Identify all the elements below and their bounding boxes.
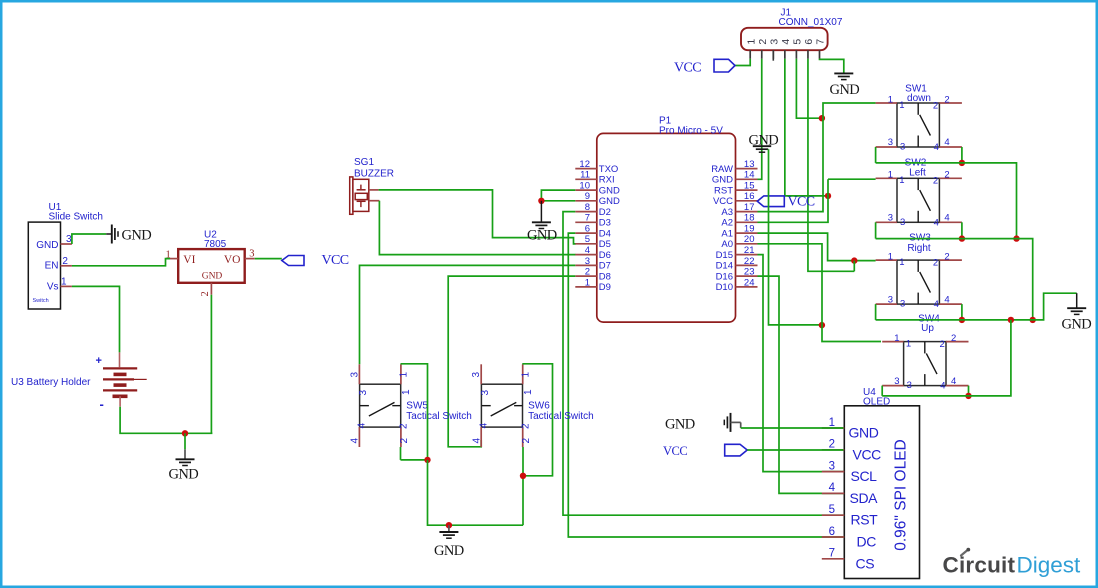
- svg-text:SW6: SW6: [528, 401, 550, 412]
- svg-text:RST: RST: [851, 512, 879, 528]
- J1 pin 4: [784, 50, 786, 59]
- VCC supply flag at P1 pin 16: [757, 196, 784, 207]
- svg-text:3: 3: [769, 39, 781, 45]
- svg-text:A0: A0: [721, 239, 733, 250]
- svg-text:3: 3: [349, 372, 360, 378]
- junction SW2 loop: [959, 235, 965, 241]
- ground symbol at P1 pins 9 10: [541, 190, 575, 201]
- wire SW3 loop to ground spur: [876, 293, 1077, 320]
- svg-text:6: 6: [803, 39, 815, 45]
- svg-text:1: 1: [899, 100, 904, 111]
- P1 pin 9 GND: [575, 200, 597, 202]
- svg-text:3: 3: [900, 217, 905, 228]
- slide switch U1: [28, 222, 60, 309]
- svg-text:D5: D5: [599, 239, 611, 250]
- J1 pin 6: [807, 50, 809, 59]
- J1 pin 1: [749, 50, 751, 59]
- P1 pin 20 A0: [736, 243, 758, 245]
- svg-text:24: 24: [744, 277, 755, 288]
- wire J1 pin7 to ground: [820, 59, 844, 73]
- U2 pin 2 GND: [210, 283, 212, 295]
- wire ground to OLED pin1: [741, 427, 844, 429]
- svg-text:20: 20: [744, 234, 755, 245]
- svg-text:2: 2: [520, 423, 531, 429]
- U1 pin 1 Vs: [61, 285, 72, 287]
- svg-text:CONN_01X07: CONN_01X07: [779, 17, 843, 28]
- svg-text:21: 21: [744, 245, 755, 256]
- svg-text:3: 3: [888, 213, 893, 224]
- svg-text:D16: D16: [716, 271, 733, 282]
- svg-text:VCC: VCC: [322, 253, 349, 268]
- svg-text:2: 2: [933, 100, 938, 111]
- U2 pin 1 VI: [170, 258, 178, 260]
- P1 pin 17 A3: [736, 211, 758, 213]
- svg-text:9: 9: [585, 191, 590, 202]
- svg-text:3: 3: [480, 390, 491, 396]
- svg-text:1: 1: [745, 39, 757, 45]
- svg-text:Right: Right: [907, 243, 931, 254]
- svg-text:19: 19: [744, 224, 755, 235]
- svg-text:23: 23: [744, 267, 755, 278]
- svg-text:2: 2: [200, 291, 211, 296]
- svg-text:4: 4: [471, 438, 482, 444]
- svg-text:BUZZER: BUZZER: [354, 169, 394, 180]
- U4 pin 5 RST: [822, 514, 845, 516]
- svg-text:14: 14: [744, 170, 755, 181]
- svg-text:7: 7: [585, 213, 590, 224]
- wire ground tap to SW4 net: [769, 149, 821, 325]
- wire SW2 pins 3 4 loop to ground rail: [875, 222, 877, 238]
- voltage regulator U2 7805: [178, 249, 245, 283]
- svg-text:Vs: Vs: [47, 282, 59, 293]
- svg-text:4: 4: [829, 482, 836, 494]
- J1 pin 5: [795, 50, 797, 59]
- svg-text:RAW: RAW: [711, 164, 733, 175]
- svg-text:Pro Micro - 5V: Pro Micro - 5V: [659, 126, 723, 137]
- svg-text:D10: D10: [716, 282, 733, 293]
- svg-text:VCC: VCC: [674, 60, 701, 75]
- svg-text:7: 7: [815, 39, 827, 45]
- svg-text:CS: CS: [856, 555, 875, 571]
- connector J1 CONN_01X07: [741, 28, 828, 50]
- U4 pin 1 GND: [822, 427, 845, 429]
- junction rail at SW3 level: [1030, 317, 1036, 323]
- buzzer pin - stub: [369, 200, 380, 202]
- svg-text:D9: D9: [599, 282, 611, 293]
- P1 pin 19 A1: [736, 232, 758, 234]
- svg-text:13: 13: [744, 159, 755, 170]
- svg-text:GND: GND: [527, 227, 557, 243]
- svg-text:2: 2: [944, 94, 949, 105]
- U4 pin 3 SCL: [822, 471, 845, 473]
- svg-text:TXO: TXO: [599, 164, 619, 175]
- U4 pin 4 SDA: [822, 492, 845, 494]
- svg-text:4: 4: [944, 213, 949, 224]
- wire P1 D7 to SW5 pin3: [360, 265, 576, 364]
- junction node A: [819, 115, 825, 121]
- wire SW2 loop to rail: [876, 239, 1033, 320]
- svg-text:Tactical Switch: Tactical Switch: [528, 411, 594, 422]
- svg-text:GND: GND: [830, 82, 860, 98]
- svg-text:22: 22: [744, 256, 755, 267]
- svg-text:3: 3: [249, 249, 254, 260]
- wire P1 A1 to SW3 pin1: [758, 233, 876, 261]
- P1 pin 12 TXO: [575, 168, 597, 170]
- wire J1 pin6 down to row net: [808, 59, 854, 271]
- svg-text:3: 3: [894, 376, 899, 387]
- P1 pin 16 VCC: [736, 200, 758, 202]
- svg-text:15: 15: [744, 181, 755, 192]
- svg-text:SDA: SDA: [850, 490, 879, 506]
- U1 pin 3 GND: [61, 243, 72, 245]
- U4 pin 7 CS: [822, 558, 845, 560]
- svg-text:3: 3: [829, 460, 835, 472]
- tactile switch SW6: [481, 384, 522, 427]
- svg-text:1: 1: [888, 251, 893, 262]
- junction SW4 net: [819, 322, 825, 328]
- P1 pin 22 D14: [736, 264, 758, 266]
- junction SW1 loop: [959, 160, 965, 166]
- svg-text:1: 1: [906, 338, 911, 349]
- svg-text:A3: A3: [721, 207, 733, 218]
- svg-text:4: 4: [934, 217, 939, 228]
- wire P1 D16 to OLED SDA: [758, 276, 845, 493]
- svg-text:3: 3: [585, 256, 590, 267]
- svg-text:4: 4: [479, 423, 490, 429]
- wire SW1 loop to rail: [876, 163, 1017, 239]
- svg-text:3: 3: [888, 137, 893, 148]
- svg-text:1: 1: [829, 417, 835, 429]
- svg-text:4: 4: [357, 423, 368, 429]
- svg-text:A2: A2: [721, 218, 733, 229]
- svg-text:1: 1: [894, 333, 899, 344]
- svg-text:RST: RST: [714, 185, 733, 196]
- wire J1 pin4 to VCC net: [785, 59, 828, 196]
- wire P1 D4 to OLED DC: [568, 233, 844, 537]
- svg-text:4: 4: [934, 299, 939, 310]
- buzzer pin + stub: [369, 189, 379, 191]
- svg-text:VCC: VCC: [788, 195, 815, 210]
- svg-text:4: 4: [944, 137, 949, 148]
- svg-text:18: 18: [744, 213, 755, 224]
- junction bottom ground: [446, 522, 452, 528]
- wire SW6 pin2 down: [522, 447, 524, 525]
- svg-text:SG1: SG1: [354, 157, 374, 168]
- svg-text:D6: D6: [599, 250, 611, 261]
- junction SW5 loop: [424, 457, 430, 463]
- svg-text:2: 2: [944, 170, 949, 181]
- svg-text:GND: GND: [122, 227, 152, 243]
- ground symbol at J1 pin 7: [834, 72, 853, 74]
- P1 pin 23 D16: [736, 275, 758, 277]
- svg-text:-: -: [100, 397, 104, 412]
- svg-text:Left: Left: [909, 167, 926, 178]
- wire node A to P1 A3: [758, 103, 876, 212]
- P1 pin 2 D8: [575, 275, 597, 277]
- U2 pin 3 VO: [245, 258, 255, 260]
- svg-text:2: 2: [933, 176, 938, 187]
- svg-text:6: 6: [829, 526, 835, 538]
- svg-text:3: 3: [471, 372, 482, 378]
- svg-text:5: 5: [792, 39, 804, 45]
- U1 pin 2 EN: [61, 265, 72, 267]
- svg-text:3: 3: [907, 380, 912, 391]
- svg-text:GND: GND: [202, 272, 223, 282]
- VCC supply flag at J1 pin 1: [714, 59, 735, 72]
- wire VCC junction to SW2 pin1: [828, 178, 876, 180]
- wire P1 D2 to OLED RST: [563, 212, 844, 516]
- svg-text:VCC: VCC: [713, 196, 733, 207]
- svg-text:VCC: VCC: [853, 446, 882, 462]
- svg-text:5: 5: [585, 234, 590, 245]
- svg-text:2: 2: [944, 251, 949, 262]
- wire P1 D15 to OLED SCL: [758, 255, 845, 472]
- svg-text:D2: D2: [599, 207, 611, 218]
- svg-text:Digest: Digest: [1017, 553, 1082, 578]
- svg-text:+: +: [96, 355, 102, 367]
- svg-text:GND: GND: [599, 196, 620, 207]
- svg-text:RXI: RXI: [599, 175, 615, 186]
- svg-text:GND: GND: [1062, 317, 1092, 333]
- svg-text:1: 1: [899, 175, 904, 186]
- wire P1 A0 to row net: [758, 244, 823, 271]
- svg-text:D15: D15: [716, 250, 733, 261]
- svg-text:17: 17: [744, 202, 755, 213]
- svg-text:A1: A1: [721, 228, 733, 239]
- svg-text:VCC: VCC: [663, 444, 687, 458]
- wire branch down to row net: [853, 261, 855, 272]
- wire SW6 pins 1 2 loop: [522, 364, 552, 476]
- P1 pin 11 RXI: [575, 178, 597, 180]
- svg-text:GND: GND: [665, 416, 695, 432]
- svg-text:4: 4: [940, 381, 945, 392]
- svg-text:Tactical Switch: Tactical Switch: [406, 411, 472, 422]
- svg-text:1: 1: [888, 94, 893, 105]
- svg-text:GND: GND: [712, 175, 733, 186]
- P1 pin 5 D5: [575, 243, 597, 245]
- svg-text:1: 1: [523, 389, 534, 395]
- svg-text:4: 4: [350, 438, 361, 444]
- svg-text:GND: GND: [434, 543, 464, 559]
- ground symbol at U1 pin 3: [106, 233, 112, 235]
- svg-text:D14: D14: [716, 261, 733, 272]
- svg-text:DC: DC: [857, 534, 877, 550]
- svg-text:2: 2: [585, 267, 590, 278]
- svg-text:8: 8: [585, 202, 590, 213]
- svg-text:4: 4: [585, 245, 590, 256]
- wire battery - to ground rail: [120, 407, 212, 434]
- svg-text:16: 16: [744, 191, 755, 202]
- svg-text:Up: Up: [921, 323, 934, 334]
- U4 pin 6 DC: [822, 536, 845, 538]
- svg-text:2: 2: [399, 423, 410, 429]
- P1 pin 4 D6: [575, 254, 597, 256]
- microcontroller P1 Pro Micro 5V: [597, 133, 736, 322]
- wire row net to SW4 pin1: [822, 271, 881, 341]
- J1 pin 2: [761, 50, 763, 59]
- svg-text:D8: D8: [599, 271, 611, 282]
- P1 pin 24 D10: [736, 286, 758, 288]
- svg-text:2: 2: [933, 257, 938, 268]
- svg-text:3: 3: [358, 390, 369, 396]
- junction SW3 branch: [851, 257, 857, 263]
- svg-text:D7: D7: [599, 261, 611, 272]
- wire SW5 loop to ground: [428, 460, 524, 525]
- VCC supply flag at U2 output: [282, 256, 304, 266]
- svg-text:2: 2: [757, 39, 769, 45]
- junction SW6 loop: [520, 473, 526, 479]
- svg-text:2: 2: [521, 438, 532, 444]
- svg-text:SW5: SW5: [406, 401, 428, 412]
- P1 pin 13 RAW: [736, 168, 758, 170]
- svg-text:1: 1: [520, 372, 531, 378]
- wire buzzer - to P1 D6: [379, 201, 575, 255]
- svg-text:1: 1: [585, 277, 590, 288]
- wire P1 D8 to SW6 pin4: [448, 276, 575, 447]
- P1 pin 6 D4: [575, 232, 597, 234]
- svg-text:VI: VI: [183, 254, 195, 266]
- svg-text:2: 2: [829, 439, 835, 451]
- wire J1 pin5 to node A: [796, 59, 822, 118]
- wire SW3 pins 3 4 loop to ground rail: [875, 304, 877, 320]
- svg-text:GND: GND: [849, 425, 879, 441]
- J1 pin 3: [772, 50, 774, 59]
- wire SW4 loop riser: [882, 320, 1011, 396]
- svg-text:4: 4: [934, 142, 939, 153]
- svg-text:EN: EN: [45, 260, 59, 271]
- svg-text:Circuit: Circuit: [943, 553, 1016, 578]
- svg-text:12: 12: [579, 159, 590, 170]
- svg-text:D4: D4: [599, 228, 611, 239]
- P1 pin 7 D3: [575, 221, 597, 223]
- P1 pin 15 RST: [736, 189, 758, 191]
- svg-text:1: 1: [399, 372, 410, 378]
- svg-text:1: 1: [61, 276, 67, 287]
- tactile switch SW5: [360, 384, 401, 427]
- wire J1 pin2 to P1 GND pin14: [758, 59, 762, 180]
- svg-text:D3: D3: [599, 218, 611, 229]
- wire U2 GND down to battery rail: [210, 295, 212, 434]
- wire U1 EN to U2 VI: [72, 259, 170, 266]
- svg-text:2: 2: [940, 339, 945, 350]
- svg-text:4: 4: [951, 376, 956, 387]
- ground symbol right rail: [1076, 293, 1078, 307]
- svg-text:U3 Battery Holder: U3 Battery Holder: [11, 377, 91, 388]
- junction rail at SW2 level: [1013, 235, 1019, 241]
- ground symbol below SW5 SW6: [448, 525, 450, 531]
- wire P1 A2 to VCC junction: [758, 179, 829, 222]
- P1 pin 21 D15: [736, 254, 758, 256]
- wire J1 pin1 to VCC flag: [735, 59, 750, 66]
- junction SW4 riser: [1008, 317, 1014, 323]
- svg-text:3: 3: [900, 299, 905, 310]
- wire SW4 pins 3 4 loop to ground rail: [881, 386, 883, 396]
- svg-text:11: 11: [580, 170, 590, 181]
- svg-text:1: 1: [888, 170, 893, 181]
- svg-text:Slide Switch: Slide Switch: [49, 212, 103, 223]
- wire buzzer + to P1 D5: [379, 190, 576, 244]
- svg-text:7805: 7805: [204, 239, 227, 250]
- junction SW3 loop: [959, 317, 965, 323]
- svg-text:1: 1: [166, 250, 171, 261]
- svg-text:1: 1: [401, 389, 412, 395]
- P1 pin 14 GND: [736, 178, 758, 180]
- svg-text:SCL: SCL: [851, 468, 878, 484]
- P1 pin 8 D2: [575, 211, 597, 213]
- svg-text:3: 3: [888, 294, 893, 305]
- wire U2 VO to VCC flag: [255, 258, 282, 260]
- wire SW1 pins 3 4 loop to ground rail: [875, 147, 877, 163]
- wire VCC flag to OLED pin2: [747, 449, 843, 451]
- svg-text:GND: GND: [169, 466, 199, 482]
- svg-text:7: 7: [829, 548, 835, 560]
- P1 pin 10 GND: [575, 189, 597, 191]
- svg-text:6: 6: [585, 224, 590, 235]
- svg-text:2: 2: [951, 333, 956, 344]
- wire SW5 pins 1 2 loop: [401, 364, 428, 460]
- junction SW4 loop: [965, 393, 971, 399]
- svg-text:5: 5: [829, 504, 835, 516]
- wire U1 pin3 to ground: [72, 234, 106, 244]
- svg-text:2: 2: [399, 438, 410, 444]
- svg-text:4: 4: [944, 294, 949, 305]
- J1 pin 3 no connect stub: [772, 51, 774, 61]
- junction battery ground: [182, 430, 188, 436]
- svg-text:10: 10: [579, 181, 590, 192]
- U4 pin 2 VCC: [822, 449, 845, 451]
- svg-text:GND: GND: [599, 185, 620, 196]
- svg-text:4: 4: [780, 39, 792, 45]
- svg-text:VO: VO: [224, 254, 241, 266]
- svg-text:3: 3: [900, 142, 905, 153]
- svg-text:1: 1: [899, 257, 904, 268]
- P1 pin 18 A2: [736, 221, 758, 223]
- J1 pin 7: [819, 50, 821, 59]
- junction VCC net: [825, 193, 831, 199]
- svg-text:0.96" SPI OLED: 0.96" SPI OLED: [893, 439, 910, 550]
- svg-text:GND: GND: [36, 240, 58, 251]
- wire U1 Vs down to battery +: [72, 286, 120, 352]
- ground symbol below battery: [184, 433, 186, 449]
- svg-text:2: 2: [62, 256, 68, 267]
- P1 pin 3 D7: [575, 264, 597, 266]
- P1 pin 1 D9: [575, 286, 597, 288]
- svg-text:Switch: Switch: [33, 298, 49, 304]
